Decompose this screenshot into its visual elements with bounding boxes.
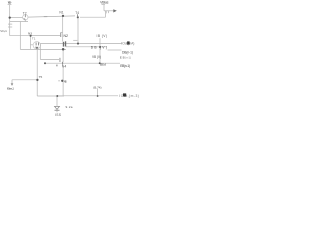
svg-text:EB: EB xyxy=(120,56,125,60)
svg-text:Vin,1: Vin,1 xyxy=(0,29,7,33)
svg-text:N3: N3 xyxy=(28,32,32,36)
svg-text:EB (V): EB (V) xyxy=(100,63,106,67)
svg-text:VB (V): VB (V) xyxy=(92,55,101,59)
svg-text:IB (V): IB (V) xyxy=(97,34,108,38)
svg-text:DB(n-1): DB(n-1) xyxy=(122,51,133,55)
svg-text:N1: N1 xyxy=(59,11,63,15)
svg-text:(B,74): (B,74) xyxy=(93,85,101,89)
svg-text:T5: T5 xyxy=(39,75,43,79)
svg-text:T1: T1 xyxy=(32,37,36,41)
svg-text:EB(n-1): EB(n-1) xyxy=(120,64,130,68)
svg-text:T2: T2 xyxy=(23,11,27,15)
svg-text:T4: T4 xyxy=(75,11,79,15)
svg-text:VBias: VBias xyxy=(100,1,109,5)
svg-text:IBias,1: IBias,1 xyxy=(7,87,14,91)
svg-text:N4: N4 xyxy=(62,64,67,68)
svg-text:IOut,(m-3): IOut,(m-3) xyxy=(119,94,138,98)
svg-text:N2: N2 xyxy=(64,34,69,38)
svg-text:ISS: ISS xyxy=(55,113,62,117)
svg-text:N5: N5 xyxy=(64,79,67,83)
svg-text:9.2a: 9.2a xyxy=(66,105,73,109)
svg-text:(n-1): (n-1) xyxy=(125,56,131,60)
